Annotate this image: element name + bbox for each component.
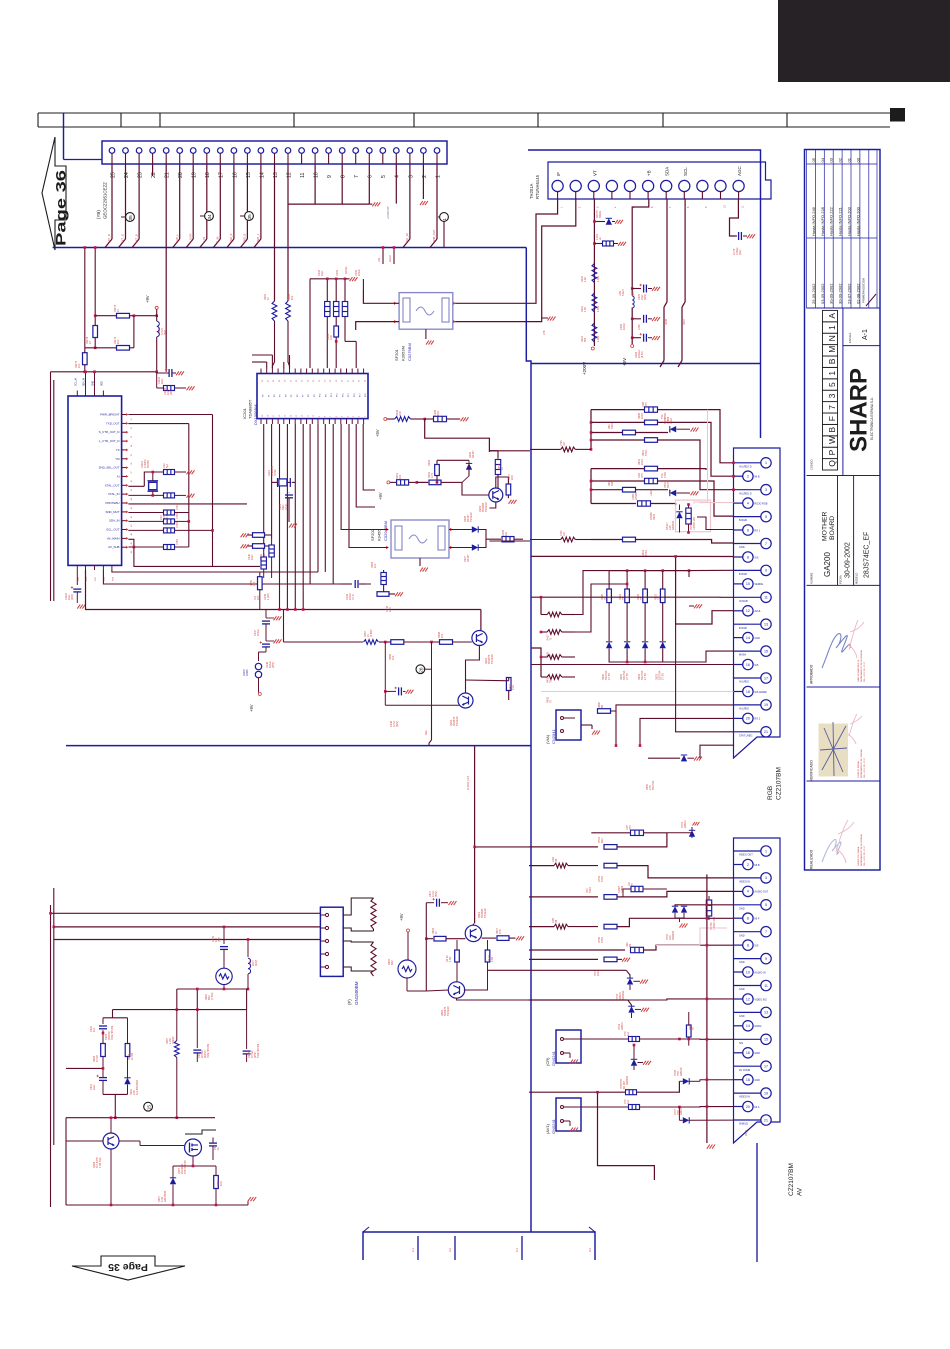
wire tuner VT chain bbox=[593, 199, 595, 346]
cap C205 +B bbox=[631, 284, 660, 293]
svg-text:Page 35: Page 35 bbox=[108, 1261, 148, 1273]
thermistor RT2 bbox=[398, 960, 416, 978]
svg-text:SIS: SIS bbox=[754, 664, 758, 667]
svg-text:PRIMERA EDICION: PRIMERA EDICION bbox=[862, 278, 866, 303]
filter SF201 label bbox=[394, 343, 412, 361]
tuner pin 1 bbox=[552, 180, 563, 208]
svg-text:C219: C219 bbox=[336, 269, 339, 276]
svg-text:3: 3 bbox=[765, 488, 767, 492]
svg-text:SIS: SIS bbox=[754, 944, 758, 947]
svg-text:4.7K: 4.7K bbox=[389, 607, 392, 612]
svg-text:AZUL: AZUL bbox=[754, 610, 761, 613]
junctions y609 bbox=[278, 608, 304, 611]
wire Q801 collector up bbox=[472, 924, 474, 926]
diode D701 top bbox=[689, 822, 700, 838]
svg-text:VDD: VDD bbox=[101, 381, 103, 386]
cap C903 bbox=[198, 1138, 217, 1161]
svg-text:AUDIO OUT: AUDIO OUT bbox=[754, 891, 768, 894]
connector YB pin 8 bbox=[339, 148, 346, 178]
svg-text:12: 12 bbox=[746, 997, 750, 1001]
svg-text:IN LREG D: IN LREG D bbox=[739, 465, 752, 468]
connector AV pin 14 bbox=[734, 1021, 762, 1031]
resistor JW701 bbox=[631, 830, 644, 835]
svg-text:CARLOS MARTINEZ GIL: CARLOS MARTINEZ GIL bbox=[857, 658, 860, 682]
ecap C1104 bbox=[157, 368, 184, 377]
svg-text:1uF: 1uF bbox=[627, 1031, 630, 1036]
wire AV row9 bbox=[529, 999, 628, 1001]
wire bubble1 down bbox=[443, 221, 445, 247]
filter SF202 body bbox=[391, 520, 449, 558]
svg-text:(AG): (AG) bbox=[739, 250, 742, 255]
svg-text:IC201: IC201 bbox=[242, 408, 247, 419]
wire YB pin 13 down bbox=[274, 164, 276, 301]
resistor R708 v bbox=[686, 1012, 691, 1046]
svg-text:STAT LREG: STAT LREG bbox=[739, 734, 753, 737]
svg-text:RTUNH6145: RTUNH6145 bbox=[535, 174, 540, 199]
wire row B4 bbox=[591, 503, 636, 505]
wire +5V branch down bbox=[425, 419, 490, 452]
svg-text:CZ2107BM: CZ2107BM bbox=[776, 767, 783, 800]
svg-text:AVE: AVE bbox=[425, 730, 428, 735]
connector RGB pin 12 bbox=[734, 606, 762, 616]
power +5V tuner bbox=[631, 345, 634, 348]
wire PR500 out bbox=[697, 517, 734, 530]
svg-text:PROTEBU: PROTEBU bbox=[106, 501, 120, 505]
connector AV pin 15 bbox=[734, 1034, 772, 1045]
resistor R622 v bbox=[643, 571, 648, 641]
svg-text:C_IN: C_IN bbox=[216, 237, 220, 243]
svg-text:+B: +B bbox=[647, 170, 652, 176]
svg-text:570R: 570R bbox=[645, 550, 648, 556]
wire mcu pin3 y572 bbox=[112, 570, 318, 572]
svg-text:AV: AV bbox=[797, 1187, 804, 1196]
svg-text:43: 43 bbox=[131, 525, 133, 527]
svg-text:JP-R: JP-R bbox=[352, 594, 355, 600]
connector YB pin 6 bbox=[367, 148, 374, 178]
svg-text:GA200: GA200 bbox=[823, 552, 832, 577]
connector RGB pin 20 bbox=[734, 713, 761, 723]
resistor column R1108 bbox=[128, 510, 188, 515]
svg-text:44: 44 bbox=[131, 533, 133, 535]
svg-text:23: 23 bbox=[138, 172, 144, 178]
svg-text:RO 1: RO 1 bbox=[754, 529, 760, 532]
cap C904 bbox=[193, 1010, 201, 1062]
wire bottom left tail bbox=[598, 1092, 655, 1180]
svg-text:5: 5 bbox=[381, 175, 387, 178]
svg-text:1: 1 bbox=[827, 371, 837, 376]
svg-text:BA809A: BA809A bbox=[672, 930, 675, 940]
svg-text:17: 17 bbox=[219, 172, 225, 178]
svg-text:TXT_G: TXT_G bbox=[121, 234, 125, 243]
svg-text:+200V: +200V bbox=[582, 362, 587, 375]
wire YB pin 24 to bus bbox=[119, 164, 126, 248]
resistor R211 zigzag bbox=[592, 293, 597, 312]
svg-text:35: 35 bbox=[131, 454, 133, 456]
connector AV pin 2 bbox=[734, 859, 760, 869]
svg-text:AUDIO IN: AUDIO IN bbox=[754, 971, 765, 974]
zigzag JP20 bbox=[489, 447, 591, 452]
wire Q201 base bbox=[471, 638, 473, 642]
cap C1102 bbox=[152, 470, 195, 475]
svg-text:12: 12 bbox=[746, 609, 750, 613]
svg-text:R253: R253 bbox=[428, 459, 431, 466]
connector RGB pin 10 bbox=[734, 579, 764, 589]
svg-text:03: 03 bbox=[829, 157, 834, 162]
svg-text:VIDEO IN: VIDEO IN bbox=[739, 1096, 750, 1099]
svg-text:10K: 10K bbox=[78, 363, 81, 368]
connector RGB pin 17 bbox=[734, 673, 772, 684]
svg-text:ATX88: ATX88 bbox=[635, 492, 638, 500]
svg-text:10K: 10K bbox=[117, 339, 120, 344]
svg-text:(16V): (16V) bbox=[170, 389, 173, 395]
svg-text:15: 15 bbox=[764, 1038, 768, 1042]
resistor PR701 v bbox=[706, 896, 711, 920]
svg-text:VERIFICADO: VERIFICADO bbox=[810, 760, 814, 781]
svg-text:B-2: B-2 bbox=[589, 1248, 592, 1253]
zigzag R705 bbox=[554, 924, 598, 929]
blue bottom connector strip bbox=[363, 1227, 595, 1260]
bus wire horizontal blue y247 bbox=[53, 247, 527, 249]
svg-text:23-07-2002: 23-07-2002 bbox=[847, 283, 852, 304]
resistor R814 h bbox=[482, 936, 524, 941]
connector RGB pin 8 bbox=[734, 552, 759, 562]
svg-text:CN2041: CN2041 bbox=[551, 729, 556, 744]
wire YB pin 17 to bus bbox=[213, 164, 220, 248]
svg-text:YM: YM bbox=[115, 457, 120, 461]
ic IC201 internal pin names bbox=[263, 393, 368, 397]
svg-text:6: 6 bbox=[747, 528, 749, 532]
ic IC201 pin numbers bbox=[262, 379, 367, 417]
revision row 00 bbox=[855, 157, 860, 304]
resistor R204 vertical bbox=[286, 301, 291, 369]
resistor R1177 v bbox=[83, 348, 88, 373]
svg-text:AUDIO_EXT: AUDIO_EXT bbox=[467, 775, 470, 790]
svg-text:APROBADO: APROBADO bbox=[810, 664, 814, 684]
connector YB pin 3 bbox=[407, 148, 414, 178]
svg-text:(7.5W): (7.5W) bbox=[211, 992, 214, 1000]
power +9V cluster bbox=[387, 481, 390, 484]
pale pink net vertical bbox=[694, 410, 708, 504]
resistor R256 v bbox=[506, 477, 516, 504]
ecap C902 bbox=[97, 1073, 108, 1094]
svg-text:1K: 1K bbox=[89, 341, 92, 344]
svg-text:VIDEO OUT: VIDEO OUT bbox=[739, 854, 753, 857]
resistor R212 zigzag bbox=[592, 323, 597, 342]
resistor R902 v bbox=[125, 1018, 130, 1075]
svg-text:19: 19 bbox=[764, 703, 768, 707]
wire Q204 collector bbox=[496, 477, 509, 488]
black marker mosfet bbox=[185, 1130, 216, 1134]
diode D207 SF202 out bbox=[449, 544, 478, 550]
wire CR gnd bbox=[570, 1053, 578, 1064]
wire micro bottom right exit bbox=[134, 547, 260, 566]
connector RGB pin 9 bbox=[734, 565, 772, 576]
wire mid to bus bbox=[429, 705, 432, 745]
svg-text:8R2: 8R2 bbox=[391, 960, 394, 965]
connector YB label bbox=[96, 182, 108, 219]
svg-text:14: 14 bbox=[746, 1024, 750, 1028]
filter SF202 label bbox=[370, 521, 388, 541]
svg-text:10R: 10R bbox=[220, 1181, 223, 1186]
wire YB pin 22 to micro bbox=[152, 164, 154, 176]
svg-text:JW: JW bbox=[563, 442, 566, 446]
resistor R202 vertical bbox=[272, 301, 277, 369]
wire left rails bottom bbox=[51, 372, 54, 1207]
svg-text:7: 7 bbox=[765, 542, 767, 546]
wires IC201 to SF202 bbox=[341, 424, 388, 548]
wire Q204 base bbox=[455, 482, 489, 495]
wire row A4 bbox=[591, 440, 734, 490]
cap C243 mid bbox=[340, 580, 366, 588]
svg-text:10: 10 bbox=[746, 970, 750, 974]
wire row B5b bbox=[636, 540, 734, 544]
svg-text:26: 26 bbox=[419, 667, 425, 673]
svg-text:VIDEO IN2: VIDEO IN2 bbox=[754, 998, 767, 1001]
resistor R270 v bbox=[504, 678, 511, 701]
svg-text:31: 31 bbox=[131, 418, 133, 420]
wire AV row8 bbox=[529, 969, 626, 971]
svg-text:17: 17 bbox=[764, 676, 768, 680]
svg-text:A-2: A-2 bbox=[449, 1248, 452, 1253]
svg-text:BZ709: BZ709 bbox=[667, 480, 670, 488]
svg-text:2.2K: 2.2K bbox=[512, 685, 515, 690]
svg-text:B30/G: B30/G bbox=[599, 211, 602, 218]
connector RGB pin 16 bbox=[734, 659, 759, 669]
resistor PR500 v bbox=[686, 503, 691, 534]
svg-text:BLK_IN: BLK_IN bbox=[405, 233, 409, 243]
svg-text:0.5W: 0.5W bbox=[664, 472, 667, 478]
resistor R1176 v bbox=[93, 314, 98, 349]
svg-text:GND: GND bbox=[739, 907, 745, 910]
svg-text:22: 22 bbox=[151, 172, 157, 178]
wire AV row7 bbox=[529, 958, 598, 960]
svg-text:GND: GND bbox=[754, 1052, 760, 1055]
svg-text:R75: R75 bbox=[645, 402, 648, 407]
revision row 02 bbox=[838, 157, 843, 304]
svg-text:XAVIER PUIG BADIA: XAVIER PUIG BADIA bbox=[857, 846, 860, 866]
connector RGB pin 14 bbox=[734, 632, 761, 642]
svg-text:SF202: SF202 bbox=[370, 528, 375, 541]
svg-text:1.6W: 1.6W bbox=[597, 336, 600, 342]
diode D213 bbox=[660, 642, 666, 656]
svg-text:570R: 570R bbox=[645, 450, 648, 456]
svg-text:AV_S: AV_S bbox=[745, 1129, 748, 1136]
svg-text:AUD_L: AUD_L bbox=[175, 234, 179, 243]
wire mcu pin to long y609 bbox=[86, 570, 481, 610]
svg-text:Y_IN: Y_IN bbox=[202, 237, 206, 243]
wire AV row5 bbox=[529, 926, 554, 928]
svg-text:SND_MUT: SND_MUT bbox=[106, 510, 120, 514]
svg-text:20: 20 bbox=[178, 172, 184, 178]
connector YB pin 18 bbox=[204, 148, 211, 178]
svg-text:16: 16 bbox=[232, 172, 238, 178]
svg-text:30-09-2002: 30-09-2002 bbox=[845, 542, 852, 578]
svg-text:YS: YS bbox=[116, 448, 120, 452]
svg-text:Hasta INFO.221: Hasta INFO.221 bbox=[838, 206, 843, 236]
svg-text:1uF: 1uF bbox=[627, 1099, 630, 1104]
svg-text:SHARP: SHARP bbox=[846, 368, 873, 452]
page ref bubble 35a bbox=[121, 216, 126, 218]
micro pins right bbox=[122, 415, 126, 548]
svg-text:Hasta INFO.246: Hasta INFO.246 bbox=[811, 206, 816, 236]
wires rgb upper pins bbox=[663, 570, 734, 662]
svg-text:B.A.809.6BM: B.A.809.6BM bbox=[136, 1080, 139, 1095]
svg-text:100R: 100R bbox=[641, 459, 644, 465]
svg-text:35: 35 bbox=[128, 215, 134, 221]
svg-text:+5V: +5V bbox=[622, 358, 627, 366]
tuner pin 7 bbox=[661, 180, 672, 208]
svg-text:18: 18 bbox=[746, 690, 750, 694]
svg-text:DEPARTAMENTO DE INGENIERIA: DEPARTAMENTO DE INGENIERIA bbox=[860, 834, 863, 866]
svg-text:21: 21 bbox=[165, 172, 171, 178]
cap C701 bbox=[629, 1037, 681, 1042]
diode D211 bbox=[624, 642, 630, 656]
svg-text:8R: 8R bbox=[623, 1086, 626, 1089]
wire micro pin15-16 bbox=[128, 539, 134, 547]
wire tuner IF pin1 to SF201 bbox=[455, 199, 558, 303]
svg-text:MI B: MI B bbox=[754, 864, 759, 867]
posistor R852 zig bbox=[371, 942, 376, 976]
sharp logo text bbox=[846, 368, 874, 452]
svg-text:(16V): (16V) bbox=[71, 594, 74, 600]
svg-text:37: 37 bbox=[131, 471, 133, 473]
connector F label bbox=[347, 981, 359, 1005]
ground trio bbox=[350, 277, 358, 281]
svg-text:25-09-2002: 25-09-2002 bbox=[811, 283, 816, 304]
connector VIA label bbox=[545, 729, 556, 744]
wire branch row2 bbox=[475, 846, 529, 848]
connector RGB pin 7 bbox=[734, 538, 772, 549]
svg-text:AGC2: AGC2 bbox=[389, 255, 392, 262]
resistor R612 bbox=[645, 466, 658, 471]
svg-text:SND_A: SND_A bbox=[229, 234, 233, 243]
wire AV row2 bbox=[529, 846, 598, 848]
pale pink AV net bbox=[700, 928, 727, 945]
svg-text:XTAL_IN: XTAL_IN bbox=[108, 492, 120, 496]
svg-text:22R: 22R bbox=[399, 411, 402, 416]
wire YB pin 21 to cluster bbox=[165, 164, 167, 372]
blue vertical AV right bbox=[756, 1143, 758, 1262]
transistor Q201 bbox=[472, 631, 487, 646]
resistor C1100 top bbox=[164, 164, 195, 391]
diode D208 bbox=[670, 490, 699, 497]
resistor R901 v bbox=[101, 1044, 106, 1074]
wire F row2 bbox=[54, 926, 321, 928]
svg-text:IN LREG: IN LREG bbox=[739, 681, 749, 684]
connector YB pin 9 bbox=[326, 148, 333, 178]
svg-text:7: 7 bbox=[827, 405, 837, 410]
connector VIA CN2041 body bbox=[556, 710, 581, 740]
svg-text:18: 18 bbox=[746, 1078, 750, 1082]
resistor R210 zigzag bbox=[592, 264, 597, 283]
svg-text:F: F bbox=[827, 416, 837, 421]
svg-text:4.7K: 4.7K bbox=[431, 473, 434, 478]
wires IC201 top shelf bbox=[252, 355, 290, 369]
tuner pin 8 bbox=[679, 180, 690, 208]
resistor R striped SF202 out bbox=[502, 537, 523, 542]
blue horizontal bus y745 bbox=[66, 745, 531, 747]
svg-text:V_CHR: V_CHR bbox=[188, 234, 192, 243]
svg-text:40: 40 bbox=[131, 498, 133, 500]
svg-text:E88 9B9B: E88 9B9B bbox=[164, 1190, 167, 1202]
wires IC201 bottom long bbox=[264, 424, 334, 610]
connector YB pin 14 bbox=[258, 148, 265, 178]
svg-text:C02948BM: C02948BM bbox=[383, 521, 388, 541]
svg-text:510R: 510R bbox=[611, 480, 614, 486]
svg-text:B-1: B-1 bbox=[516, 1248, 519, 1253]
wire AV row1 bbox=[591, 832, 667, 834]
wire diode-collector link bbox=[462, 460, 469, 482]
wire AV row8b bbox=[630, 986, 734, 991]
vertical resistors under IC left bbox=[261, 539, 274, 578]
svg-text:R75: R75 bbox=[641, 473, 644, 478]
svg-text:JP4R: JP4R bbox=[176, 539, 179, 545]
revision row 04 bbox=[820, 157, 825, 304]
wire mcu pin2 y584 bbox=[103, 570, 340, 584]
svg-text:20: 20 bbox=[746, 717, 750, 721]
wire YB pin 12 down bbox=[287, 164, 289, 301]
svg-text:SIS: SIS bbox=[739, 1042, 743, 1045]
wire c218 riser bbox=[362, 279, 364, 290]
svg-text:9: 9 bbox=[327, 175, 333, 178]
svg-text:E88CK: E88CK bbox=[684, 820, 687, 828]
svg-text:ESCALA: ESCALA bbox=[848, 332, 852, 343]
cap C901 loop bbox=[99, 1018, 128, 1043]
svg-text:BOARD: BOARD bbox=[829, 516, 836, 540]
svg-text:AV_SUB: AV_SUB bbox=[108, 545, 119, 549]
connector YB pin 22 bbox=[150, 148, 157, 178]
micro bottom labels bbox=[78, 576, 115, 581]
svg-text:+9V: +9V bbox=[145, 295, 150, 303]
svg-text:34: 34 bbox=[131, 445, 133, 447]
svg-text:SIS AMARI: SIS AMARI bbox=[754, 691, 767, 694]
wires pins 17-21 bbox=[616, 624, 734, 746]
zigzag R905 bbox=[174, 1010, 179, 1119]
resistor JW704 bbox=[626, 1090, 637, 1095]
resistor R613 bbox=[623, 487, 636, 492]
cap C206 +B bbox=[631, 315, 660, 323]
svg-text:10nF: 10nF bbox=[161, 378, 164, 384]
svg-text:CZ2107BM: CZ2107BM bbox=[788, 1163, 795, 1196]
wire AV row1 to pin1 bbox=[667, 833, 734, 851]
wire Q201 drive bbox=[480, 610, 482, 632]
riser row A bbox=[590, 410, 593, 451]
svg-text:TEL:+34 93 581 97 00: TEL:+34 93 581 97 00 bbox=[864, 845, 866, 866]
svg-text:T2B 3H6 B6: T2B 3H6 B6 bbox=[184, 1160, 187, 1174]
svg-text:(VIA): (VIA) bbox=[545, 734, 550, 744]
wire top shelf y371 bbox=[51, 371, 159, 391]
svg-text:Hasta INFO.200: Hasta INFO.200 bbox=[855, 206, 860, 236]
page 35 arrow bbox=[72, 1256, 185, 1280]
wire Q202 collector right bbox=[466, 679, 505, 682]
svg-text:K9456: K9456 bbox=[377, 529, 382, 541]
net stub b below bus bbox=[393, 246, 396, 264]
svg-text:10K: 10K bbox=[441, 633, 444, 638]
wire row B2 bbox=[591, 481, 734, 516]
diode D705 bbox=[612, 1039, 651, 1070]
svg-text:10pF: 10pF bbox=[321, 270, 324, 276]
svg-text:TR3E4D: TR3E4D bbox=[485, 502, 488, 512]
ground SF202 center bbox=[420, 558, 428, 572]
pale pink net horizontal bbox=[694, 501, 734, 504]
right frame ruler bbox=[890, 108, 905, 122]
diode D201 VT bbox=[593, 218, 623, 224]
svg-text:GND2: GND2 bbox=[754, 1025, 762, 1028]
svg-text:SCL_M: SCL_M bbox=[75, 378, 77, 386]
transistor Q802 bbox=[448, 982, 464, 998]
wire AV row3 bbox=[529, 865, 554, 867]
svg-text:6: 6 bbox=[368, 175, 374, 178]
